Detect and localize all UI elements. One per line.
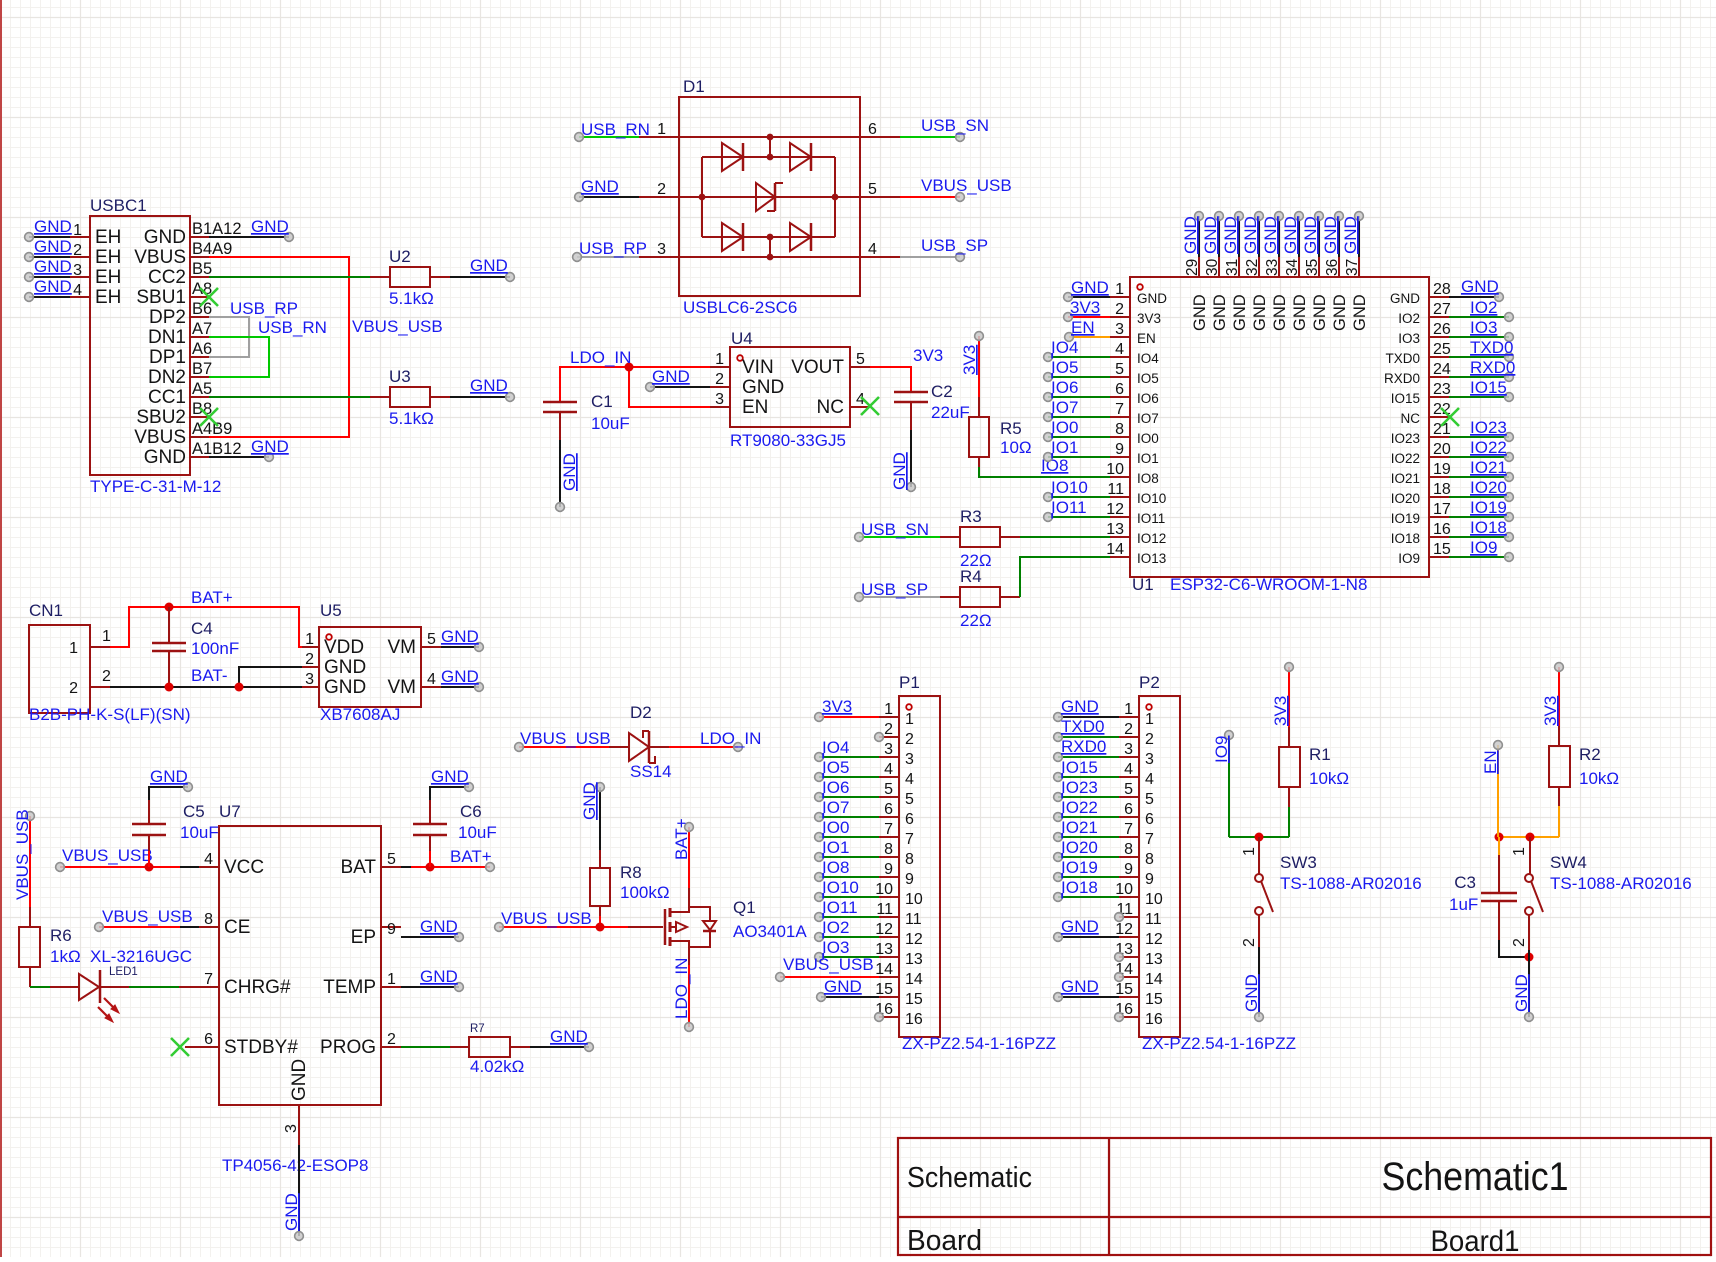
svg-text:Board1: Board1 [1431,1225,1520,1257]
svg-text:EH: EH [95,267,121,288]
svg-text:12: 12 [905,931,923,948]
wire IO7 to U1 [1044,398,1110,421]
svg-text:4: 4 [427,671,436,688]
wire IO6 to P1 pin 5 [815,778,879,801]
svg-text:5: 5 [1124,781,1133,798]
svg-text:USB_SP: USB_SP [921,236,988,255]
svg-text:Schematic: Schematic [907,1162,1032,1194]
svg-text:GND: GND [1331,294,1349,331]
wire PROG to R7 [401,1046,450,1048]
no-connect A8 [200,288,218,306]
svg-text:GND: GND [1221,216,1240,254]
svg-text:5: 5 [1145,791,1154,808]
svg-text:6: 6 [1115,381,1124,398]
wire GND from U7 EP [401,917,463,941]
U4 pin numbers [715,351,865,408]
svg-text:3: 3 [1124,741,1133,758]
svg-text:GND: GND [560,453,579,491]
svg-text:TEMP: TEMP [323,977,376,998]
svg-text:GND: GND [431,767,469,786]
svg-text:EN: EN [1137,331,1156,346]
svg-text:R7: R7 [470,1023,485,1035]
svg-text:RXD0: RXD0 [1470,358,1515,377]
svg-text:IO0: IO0 [1137,431,1159,446]
svg-text:10uF: 10uF [180,823,219,842]
resistor R7 4.02k body [450,1037,530,1057]
svg-text:PROG: PROG [320,1037,376,1058]
svg-text:1: 1 [657,121,666,138]
wires GND to U1 top pins 29-37 [1181,212,1363,257]
wire GND below C1 [556,440,579,511]
wire VBUS_USB to Q1 gate [495,909,663,932]
wire IO4 to U1 [1044,338,1110,361]
wire VBUS_USB to R6 [13,809,34,927]
svg-text:1: 1 [715,351,724,368]
svg-text:U5: U5 [320,601,342,620]
svg-text:11: 11 [876,901,893,918]
svg-text:VDD: VDD [324,637,364,658]
wire IO8 from R5 to U1 pin10 [979,467,1110,477]
wire 3V3 to R5 [960,332,983,417]
svg-text:2: 2 [102,668,111,685]
wire IO10 to U1 [1044,478,1110,501]
svg-text:GND: GND [420,967,458,986]
wire R4 to U1 pin14 [1020,557,1110,597]
svg-text:2: 2 [1511,938,1528,947]
svg-text:IO11: IO11 [1051,498,1087,517]
svg-text:A6: A6 [192,340,212,358]
U1 top inside pin names GND [1191,294,1369,331]
U1 left pin numbers 1-14 [1106,281,1124,558]
wire GND to U1 pin1 [1064,278,1110,301]
svg-text:3: 3 [715,391,724,408]
svg-text:8: 8 [204,911,213,928]
svg-text:IO20: IO20 [1391,491,1420,506]
svg-text:17: 17 [1433,501,1451,518]
svg-text:RXD0: RXD0 [1384,371,1420,386]
svg-text:1: 1 [905,711,914,728]
charger U7 TP4056-42-ESOP8 body [199,826,401,1145]
svg-text:D1: D1 [683,77,705,96]
svg-text:IO23: IO23 [1470,418,1507,437]
svg-text:IO5: IO5 [1051,358,1078,377]
svg-text:ESP32-C6-WROOM-1-N8: ESP32-C6-WROOM-1-N8 [1170,575,1367,594]
svg-text:C3: C3 [1454,873,1476,892]
svg-text:29: 29 [1184,259,1201,276]
svg-text:3: 3 [884,741,893,758]
svg-text:10kΩ: 10kΩ [1309,769,1349,788]
svg-text:U4: U4 [731,329,753,348]
svg-text:10: 10 [1106,461,1124,478]
P1 inside pin numbers [905,711,923,1028]
svg-text:36: 36 [1324,259,1341,276]
wire VBUS_USB loop B4A9-A4B9 [209,257,349,437]
svg-text:GND: GND [251,217,289,236]
svg-text:2: 2 [69,680,78,697]
svg-text:GND: GND [1301,216,1320,254]
svg-text:GND: GND [1241,216,1260,254]
svg-text:1uF: 1uF [1449,895,1478,914]
svg-text:1: 1 [102,628,111,645]
P2 outside pin numbers [1115,701,1133,1018]
wire IO18 from U1 [1449,518,1513,541]
D1 top diodes [722,143,811,171]
resistor U2 5.1k body [370,267,450,287]
svg-text:IO21: IO21 [1061,818,1098,837]
capacitor C1 10uF [543,402,577,440]
svg-text:IO18: IO18 [1470,518,1507,537]
wire IO2 from U1 [1449,298,1513,321]
wire GND from U2 [450,256,514,281]
svg-text:IO5: IO5 [822,758,849,777]
svg-text:5: 5 [884,781,893,798]
wire LDO_IN from Q1 source [672,958,693,1032]
switch SW3 TS-1088-AR02016 [1255,837,1273,947]
svg-text:4: 4 [868,241,877,258]
svg-text:C6: C6 [460,802,482,821]
svg-text:2: 2 [657,181,666,198]
P1 pin 16 unconnected terminal [875,1013,884,1022]
svg-text:IO7: IO7 [1137,411,1159,426]
svg-text:GND: GND [1512,974,1531,1012]
USBC1 right pad names [192,220,242,458]
svg-text:IO6: IO6 [1051,378,1078,397]
wire LDO_IN to U4 VIN and EN [560,363,710,408]
wire BAT+ to Q1 drain [672,818,693,888]
svg-text:XB7608AJ: XB7608AJ [320,705,400,724]
svg-text:30: 30 [1204,258,1221,276]
wire GND from U5 pin5 [441,627,483,651]
svg-text:IO7: IO7 [822,798,849,817]
no-connect U1 pin22 [1441,408,1459,426]
svg-text:IO21: IO21 [1470,458,1507,477]
svg-text:VBUS_USB: VBUS_USB [102,907,193,926]
wire IO20 from U1 [1449,478,1513,501]
svg-text:5.1kΩ: 5.1kΩ [389,409,434,428]
svg-text:STDBY#: STDBY# [224,1037,298,1058]
svg-text:16: 16 [905,1011,923,1028]
svg-text:VBUS: VBUS [134,247,186,268]
svg-text:2: 2 [715,371,724,388]
resistor R4 22 Ohm body [940,587,1020,607]
wire GND from SW3 [1242,947,1263,1021]
svg-text:9: 9 [905,871,914,888]
svg-text:CC1: CC1 [148,387,186,408]
svg-text:A1B12: A1B12 [192,440,242,458]
svg-text:IO9: IO9 [1470,538,1497,557]
svg-text:1: 1 [1115,281,1124,298]
svg-text:33: 33 [1264,259,1281,276]
svg-text:1: 1 [73,222,82,239]
capacitor C3 1uF [1481,837,1534,962]
svg-text:IO2: IO2 [1470,298,1497,317]
resistor R3 22 Ohm body [940,527,1020,547]
svg-text:14: 14 [875,961,893,978]
svg-text:16: 16 [1145,1011,1163,1028]
svg-text:GND: GND [282,1193,301,1231]
svg-text:13: 13 [905,951,923,968]
svg-text:IO18: IO18 [1391,531,1420,546]
U1 left pin names [1137,291,1167,566]
svg-text:RXD0: RXD0 [1061,737,1106,756]
svg-text:27: 27 [1433,301,1451,318]
svg-text:IO1: IO1 [1137,451,1159,466]
wire 3V3 from U4 VOUT [870,367,911,392]
resistor R8 100k body [590,868,610,906]
svg-text:3V3: 3V3 [1070,298,1100,317]
svg-text:GND: GND [1261,216,1280,254]
wire DN1-DN2 A7-B7 [209,337,269,377]
wire 3V3 to P1 pin 1 [815,697,879,721]
connector USBC1 TYPE-C-31-M-12 body [70,216,209,475]
D1 zener diode [756,183,783,211]
svg-text:USBLC6-2SC6: USBLC6-2SC6 [683,298,797,317]
svg-text:26: 26 [1433,321,1451,338]
svg-text:12: 12 [1115,921,1133,938]
svg-text:IO20: IO20 [1061,838,1098,857]
wire USB_SP to R4 [855,580,940,601]
svg-text:GND: GND [580,782,599,820]
wire IO23 from U1 [1449,418,1513,441]
svg-text:IO8: IO8 [1137,471,1159,486]
svg-text:USB_SN: USB_SN [861,520,929,539]
svg-text:IO4: IO4 [1051,338,1078,357]
svg-text:LDO_IN: LDO_IN [672,958,691,1019]
svg-text:B4A9: B4A9 [192,240,232,258]
svg-text:IO13: IO13 [1137,551,1166,566]
svg-text:VBUS_USB: VBUS_USB [352,317,443,336]
wire GND to USBC1 pin 1 [25,217,72,241]
svg-text:IO6: IO6 [1137,391,1159,406]
wire R2 to SW4 junction EN net [1495,787,1560,842]
svg-text:VOUT: VOUT [791,357,844,378]
wire IO1 to U1 [1044,438,1110,461]
svg-text:IO8: IO8 [822,858,849,877]
wire VBUS_USB to U7 VCC [56,846,199,872]
svg-text:Schematic1: Schematic1 [1382,1155,1569,1199]
svg-text:IO20: IO20 [1470,478,1507,497]
svg-text:GND: GND [324,677,366,698]
P2 pin 14 unconnected terminal [1115,973,1124,982]
wire IO15 from U1 [1449,378,1513,401]
wire GND to D1 pin2 [575,177,639,201]
SW3 pin numbers [1241,847,1258,947]
wire BAT+ CN1 pin1 to U5 VDD [110,603,319,648]
svg-text:IO0: IO0 [1051,418,1078,437]
svg-text:5.1kΩ: 5.1kΩ [389,289,434,308]
svg-text:IO10: IO10 [1137,491,1166,506]
svg-text:B2B-PH-K-S(LF)(SN): B2B-PH-K-S(LF)(SN) [29,705,191,724]
USBC1 left pin names EH [95,227,121,308]
svg-text:2: 2 [1124,721,1133,738]
svg-text:4.02kΩ: 4.02kΩ [470,1057,524,1076]
wire IO15 to P2 pin 4 [1054,758,1119,781]
svg-text:GND: GND [324,657,366,678]
svg-text:TS-1088-AR02016: TS-1088-AR02016 [1280,874,1422,893]
svg-text:B1A12: B1A12 [192,220,242,238]
svg-text:CN1: CN1 [29,601,63,620]
P2 pin 13 unconnected terminal [1115,953,1124,962]
svg-text:EH: EH [95,227,121,248]
svg-text:GND: GND [1281,216,1300,254]
svg-text:1: 1 [1145,711,1154,728]
svg-text:14: 14 [1106,541,1124,558]
svg-text:7: 7 [1145,831,1154,848]
svg-text:B7: B7 [192,360,212,378]
svg-text:USB_RP: USB_RP [230,299,298,318]
svg-text:10: 10 [1115,881,1133,898]
svg-text:8: 8 [884,841,893,858]
svg-text:GND: GND [150,767,188,786]
svg-text:VBUS: VBUS [134,427,186,448]
wire IO19 from U1 [1449,498,1513,521]
svg-text:GND: GND [420,917,458,936]
svg-text:EH: EH [95,247,121,268]
svg-text:13: 13 [1106,521,1124,538]
svg-text:5: 5 [856,351,865,368]
svg-text:8: 8 [905,851,914,868]
svg-text:GND: GND [1242,974,1261,1012]
svg-text:22Ω: 22Ω [960,611,992,630]
svg-text:NC: NC [817,397,844,418]
svg-text:VBUS_USB: VBUS_USB [783,955,874,974]
wire GND from U3 [450,376,514,401]
wire IO21 from U1 [1449,458,1513,481]
svg-text:3V3: 3V3 [913,346,943,365]
wire 3V3 to R2 [1541,663,1563,746]
svg-text:4: 4 [1124,761,1133,778]
svg-text:P1: P1 [899,673,920,692]
svg-text:IO9: IO9 [1398,551,1420,566]
U1 right pin names [1384,291,1420,566]
svg-text:GND: GND [1271,294,1289,331]
svg-text:USB_SN: USB_SN [921,116,989,135]
capacitor C5 10uF [132,800,166,867]
svg-text:USBC1: USBC1 [90,196,147,215]
wire DP2-DP1 B6-A6 [209,317,249,357]
svg-text:10uF: 10uF [458,823,497,842]
wire RXD0 from U1 [1449,358,1515,381]
wire GND to USBC1 pin 4 [25,277,72,301]
wire TXD0 to P2 pin 2 [1054,717,1119,741]
svg-text:16: 16 [1433,521,1451,538]
wire IO19 to P2 pin 9 [1054,858,1119,881]
wire CC2 B5 to U2 [209,276,370,278]
svg-text:6: 6 [1145,811,1154,828]
svg-text:3V3: 3V3 [960,345,979,375]
svg-text:GND: GND [550,1027,588,1046]
svg-text:GND: GND [1061,917,1099,936]
wire USB_RN to D1 pin1 [575,120,650,141]
svg-text:8: 8 [1145,851,1154,868]
wire GND to P2 pin 15 [1054,977,1119,1001]
svg-text:1: 1 [69,640,78,657]
svg-text:EN: EN [1071,318,1095,337]
wire GND to USBC1 pin 2 [25,237,72,261]
svg-text:IO12: IO12 [1137,531,1166,546]
svg-text:IO1: IO1 [1051,438,1078,457]
SW4 pin numbers [1511,847,1528,947]
header P1 ZX-PZ2.54-1-16PZZ body [879,696,940,1037]
svg-text:2: 2 [1115,301,1124,318]
svg-text:GND: GND [1461,277,1499,296]
wire EN to junction [1481,741,1502,837]
svg-text:37: 37 [1344,259,1361,276]
resistor U3 5.1k body [370,387,450,407]
svg-text:5: 5 [868,181,877,198]
svg-text:25: 25 [1433,341,1451,358]
svg-text:C1: C1 [591,392,613,411]
svg-text:A4B9: A4B9 [192,420,232,438]
svg-text:15: 15 [905,991,923,1008]
svg-text:7: 7 [884,821,893,838]
wire IO23 to P2 pin 5 [1054,778,1119,801]
wire IO3 to P1 pin 13 [815,938,879,961]
svg-text:2: 2 [905,731,914,748]
svg-text:U7: U7 [219,802,241,821]
schottky diode D2 SS14 [629,731,669,763]
svg-text:TXD0: TXD0 [1470,338,1513,357]
svg-text:2: 2 [305,651,314,668]
svg-text:10uF: 10uF [591,414,630,433]
svg-text:3: 3 [657,241,666,258]
wire VBUS_USB to P1 pin 14 [776,955,879,981]
svg-text:GND: GND [1231,294,1249,331]
svg-text:2: 2 [1145,731,1154,748]
svg-text:3V3: 3V3 [1137,311,1161,326]
wire IO20 to P2 pin 8 [1054,838,1119,861]
svg-text:IO19: IO19 [1391,511,1420,526]
svg-text:VBUS_USB: VBUS_USB [501,909,592,928]
svg-text:4: 4 [73,282,82,299]
wire IO7 to P1 pin 6 [815,798,879,821]
svg-text:DN2: DN2 [148,367,186,388]
svg-text:14: 14 [1145,971,1163,988]
wire BAT- CN1 pin2 to U5 GND [110,667,302,692]
wire EN to U1 pin3 [1065,318,1110,341]
svg-text:3V3: 3V3 [822,697,852,716]
svg-text:9: 9 [1115,441,1124,458]
wire GND to P2 pin 12 [1054,917,1119,941]
svg-text:R8: R8 [620,863,642,882]
svg-text:R3: R3 [960,507,982,526]
D1 bottom diodes [722,223,811,251]
wire IO22 to P2 pin 6 [1054,798,1119,821]
P1 pin 2 unconnected terminal [875,733,884,742]
svg-text:1: 1 [884,701,893,718]
svg-text:VBUS_USB: VBUS_USB [520,729,611,748]
svg-text:1: 1 [1511,847,1528,856]
wire IO21 to P2 pin 7 [1054,818,1119,841]
svg-text:SW4: SW4 [1550,853,1587,872]
P2 inside pin numbers [1145,711,1163,1028]
svg-text:6: 6 [884,801,893,818]
svg-text:R2: R2 [1579,745,1601,764]
svg-text:12: 12 [1106,501,1124,518]
wire 3V3 to R1 [1271,663,1293,747]
svg-text:AO3401A: AO3401A [733,922,807,941]
svg-text:7: 7 [1124,821,1133,838]
svg-text:15: 15 [1145,991,1163,1008]
svg-text:IO23: IO23 [1391,431,1420,446]
svg-text:U2: U2 [389,247,411,266]
D1 junctions [699,134,839,261]
svg-text:GND: GND [742,377,784,398]
wire IO4 to P1 pin 3 [815,738,879,761]
svg-text:2: 2 [1241,938,1258,947]
wire GND to USBC1 pin 3 [25,257,72,281]
svg-text:IO11: IO11 [822,898,858,917]
